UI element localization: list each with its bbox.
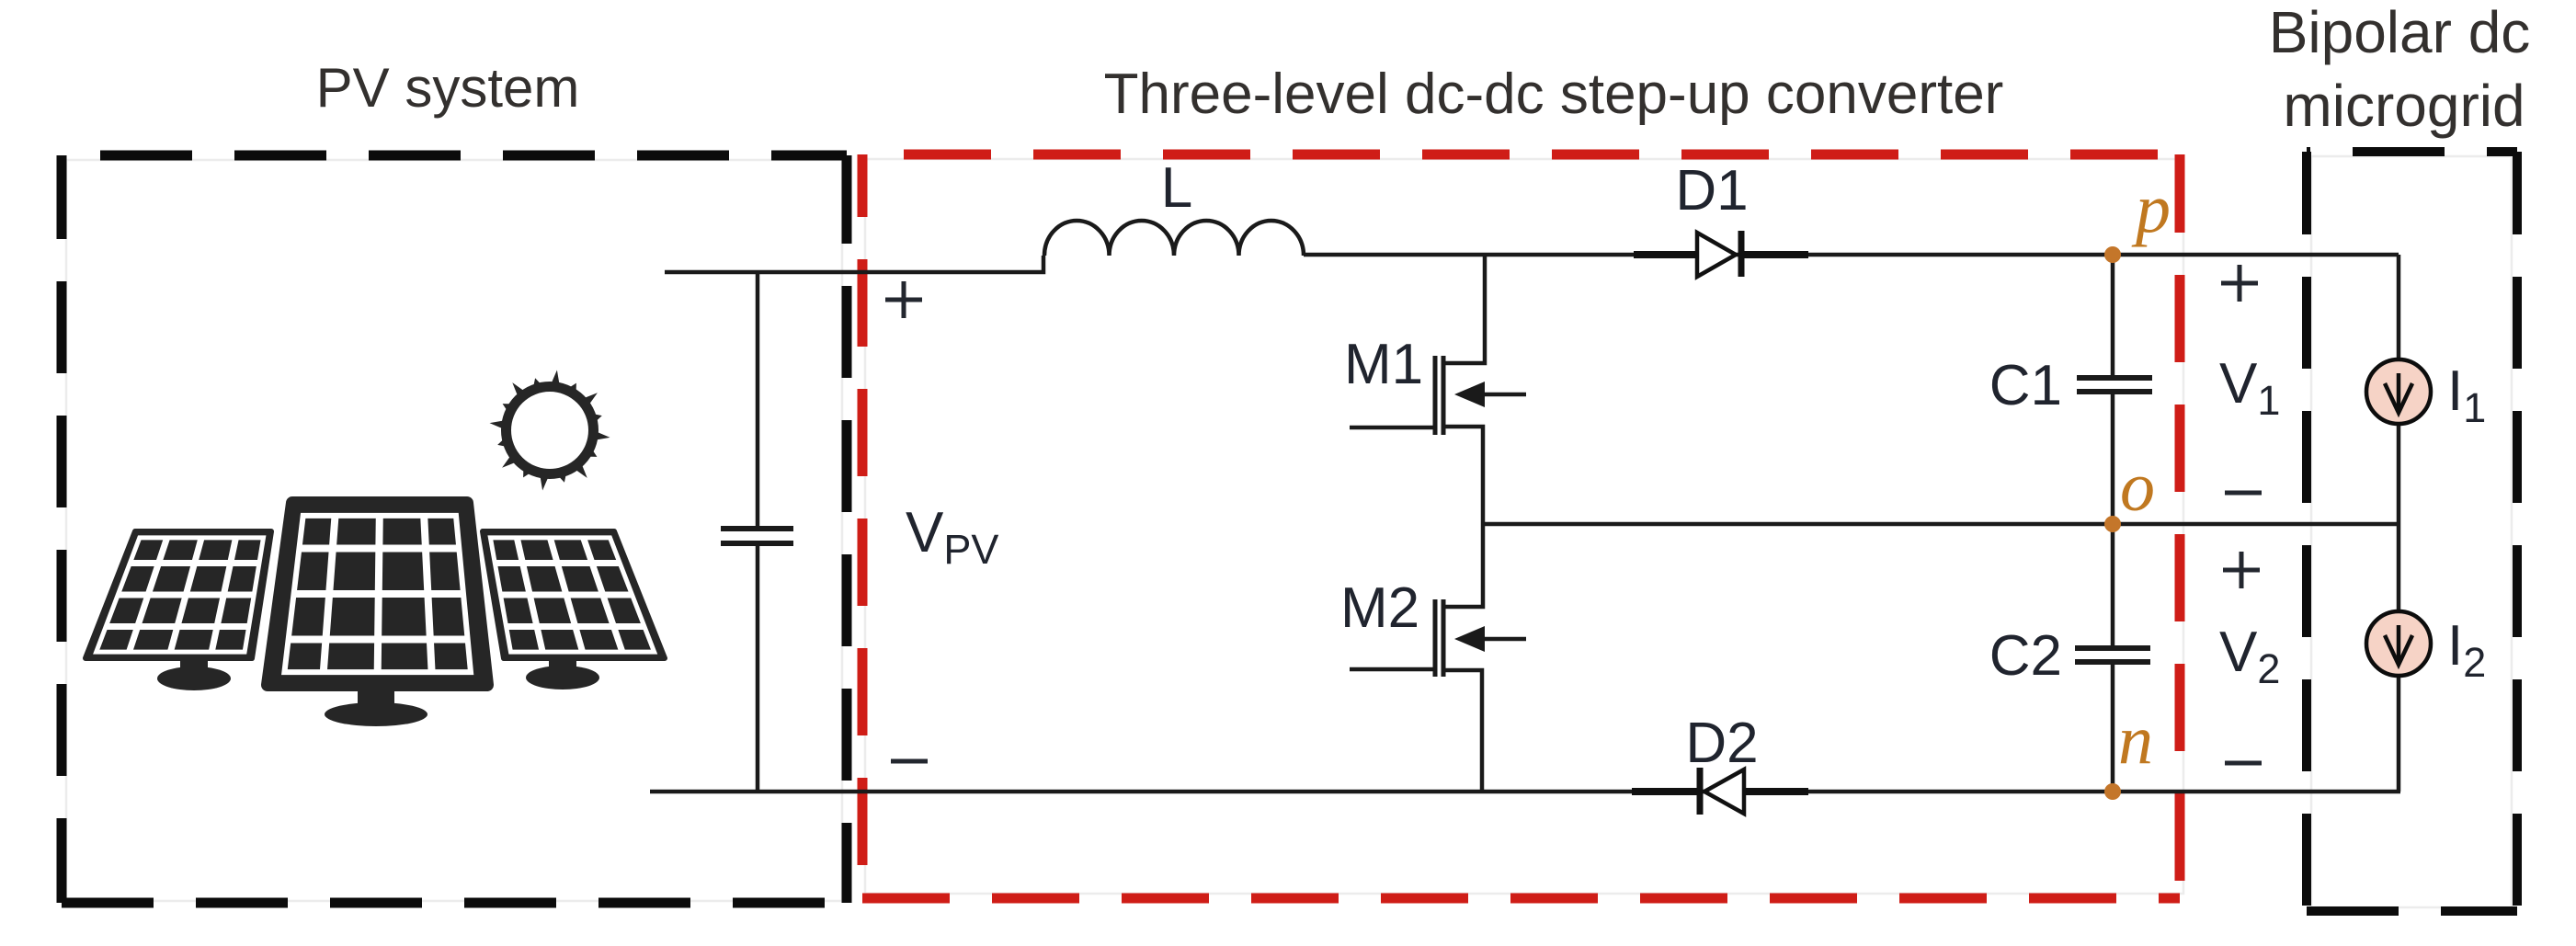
- svg-text:Bipolar dc: Bipolar dc: [2269, 0, 2531, 65]
- svg-text:C1: C1: [1989, 354, 2062, 417]
- svg-text:M2: M2: [1340, 576, 1419, 640]
- svg-text:n: n: [2118, 701, 2153, 779]
- svg-text:microgrid: microgrid: [2283, 73, 2525, 139]
- svg-text:D1: D1: [1675, 159, 1748, 222]
- svg-text:L: L: [1161, 156, 1192, 220]
- svg-text:Three-level dc-dc step-up conv: Three-level dc-dc step-up converter: [1104, 63, 2004, 126]
- svg-text:o: o: [2120, 449, 2155, 526]
- svg-text:PV system: PV system: [316, 57, 580, 119]
- svg-text:D2: D2: [1685, 712, 1758, 775]
- svg-text:C2: C2: [1989, 624, 2062, 688]
- svg-text:M1: M1: [1344, 333, 1423, 396]
- svg-text:p: p: [2131, 170, 2171, 247]
